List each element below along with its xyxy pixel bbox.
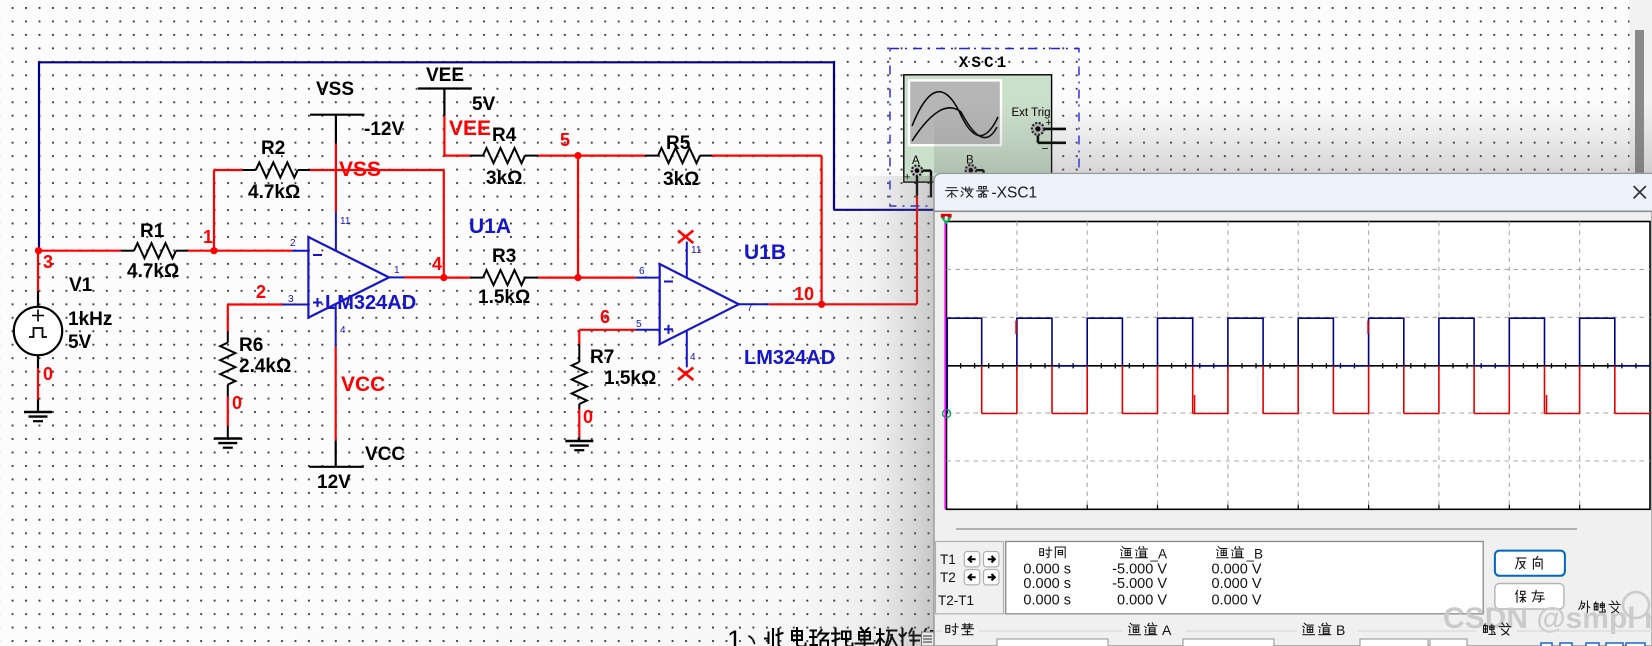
- left edge grip: [922, 632, 935, 646]
- svg-text:3kΩ: 3kΩ: [663, 169, 699, 190]
- svg-text:12V: 12V: [317, 472, 351, 493]
- wire R1 to node1/pin2: [188, 250, 292, 252]
- node 10: [794, 284, 825, 308]
- button reverse (fanxiang): [1495, 551, 1565, 576]
- svg-text:0.000 s: 0.000 s: [1023, 576, 1071, 592]
- svg-text:5: 5: [636, 319, 642, 330]
- svg-text:1: 1: [203, 227, 213, 247]
- wire node5 to R5: [578, 155, 645, 157]
- svg-text:6: 6: [639, 266, 645, 277]
- bottom text 1.此电路把单极性信: [727, 625, 942, 646]
- no-connect X pin4 U1B: [678, 368, 693, 381]
- svg-text:LM324AD: LM324AD: [325, 292, 416, 314]
- label channel B group: [1303, 622, 1346, 638]
- svg-text:B: B: [1336, 622, 1345, 638]
- svg-text:-5.000 V: -5.000 V: [1112, 576, 1167, 592]
- power rail VSS -12V: [310, 115, 364, 212]
- svg-text:1: 1: [727, 625, 742, 646]
- svg-text:U1A: U1A: [469, 215, 511, 238]
- cursor readout T-box: [936, 542, 1004, 614]
- red overshoot spikes: [1016, 321, 1368, 335]
- svg-text:0: 0: [43, 364, 53, 384]
- wire node6 to pin5: [579, 330, 635, 344]
- label ext trigger (waichufa): [1579, 601, 1620, 613]
- svg-text:U1B: U1B: [744, 241, 786, 264]
- resistor R2 4.7k: [243, 162, 310, 177]
- channel start transients at left edge: [946, 318, 948, 413]
- U1A pin numbers: [288, 216, 400, 336]
- label channel A group: [1129, 622, 1172, 638]
- svg-text:5: 5: [560, 130, 570, 150]
- label timebase (shiji): [946, 624, 974, 635]
- power rail VCC 12V: [309, 347, 364, 467]
- channel A red waveform: [982, 366, 1650, 414]
- window title bar: [935, 174, 1652, 211]
- wire node3 to R1: [39, 250, 122, 252]
- svg-text:XSC1: XSC1: [959, 54, 1009, 72]
- resistor R3 1.5k: [470, 270, 538, 285]
- svg-text:0: 0: [232, 393, 242, 413]
- svg-text:6: 6: [600, 307, 610, 327]
- wire net3 blue from source to scope channel B: [39, 61, 935, 250]
- resistor R1 4.7k: [121, 243, 188, 258]
- cursor arrow buttons: [964, 552, 999, 585]
- svg-text:VSS: VSS: [339, 158, 381, 181]
- svg-text:1.5kΩ: 1.5kΩ: [604, 368, 656, 389]
- separator under graph: [956, 528, 1577, 530]
- oscilloscope XSC1 body: [904, 75, 1052, 182]
- svg-text:_A: _A: [1150, 547, 1168, 562]
- svg-text:CSDN @smpl: CSDN @smpl: [1443, 602, 1636, 635]
- svg-text:11: 11: [691, 245, 702, 256]
- svg-text:4: 4: [690, 352, 696, 363]
- ground under R6: [214, 439, 242, 448]
- svg-text:VSS: VSS: [316, 79, 354, 100]
- svg-text:-XSC1: -XSC1: [992, 185, 1038, 202]
- button save (baocun): [1495, 584, 1564, 610]
- svg-text:V1: V1: [69, 275, 93, 296]
- svg-text:5V: 5V: [68, 332, 92, 353]
- svg-text:11: 11: [340, 216, 351, 227]
- wire R2 to node4 riser: [310, 170, 444, 278]
- node 2 wire R6 to pin3: [228, 305, 282, 332]
- scope time axis: [947, 362, 1651, 510]
- svg-text:0.000 V: 0.000 V: [1212, 576, 1262, 592]
- svg-text:0.000 s: 0.000 s: [1023, 593, 1071, 609]
- svg-text:1kHz: 1kHz: [68, 309, 112, 330]
- watermark CSDN: [1443, 592, 1652, 635]
- node5 riser junction: [574, 156, 581, 282]
- svg-text:7: 7: [747, 303, 753, 314]
- scope gridlines: [947, 222, 1651, 510]
- svg-text:R5: R5: [666, 133, 691, 154]
- readout table: [1006, 542, 1483, 614]
- op-amp U1A LM324AD: [282, 212, 404, 347]
- terminal B: [966, 155, 984, 176]
- svg-text:VCC: VCC: [365, 444, 405, 465]
- U1B pin numbers: [636, 245, 753, 363]
- table value rows: [1023, 562, 1261, 609]
- wire U1A output to node4: [404, 276, 444, 278]
- resistor R5 3k: [645, 148, 712, 163]
- resistor R4 3k: [470, 148, 538, 163]
- svg-text:R3: R3: [492, 246, 516, 267]
- svg-text:VEE: VEE: [426, 65, 464, 86]
- svg-text:0.000 V: 0.000 V: [1117, 593, 1167, 609]
- svg-text:4.7kΩ: 4.7kΩ: [127, 261, 179, 282]
- wire R5 to node10 riser: [712, 156, 822, 305]
- ground under R7: [565, 441, 593, 450]
- channel B blue waveform: [947, 318, 1651, 366]
- svg-text:VEE: VEE: [449, 117, 491, 140]
- svg-text:_B: _B: [1246, 547, 1264, 562]
- wire node4 to R3: [444, 277, 470, 279]
- svg-text:T1: T1: [940, 552, 956, 567]
- table headers: [1040, 546, 1263, 561]
- svg-text:1.5kΩ: 1.5kΩ: [478, 287, 530, 308]
- wire R4 to node5: [538, 155, 578, 157]
- channel B reference marker: [943, 410, 951, 418]
- svg-text:4: 4: [432, 254, 442, 274]
- svg-text:VCC: VCC: [341, 373, 385, 396]
- svg-text:5V: 5V: [472, 94, 496, 115]
- T labels: [938, 552, 974, 608]
- ground under V1: [24, 412, 52, 421]
- node 3: [35, 247, 53, 272]
- svg-text:-12V: -12V: [364, 119, 404, 140]
- power rail VEE 5V: [418, 89, 472, 156]
- svg-text:3kΩ: 3kΩ: [486, 168, 522, 189]
- voltage source V1 square wave 1kHz 5V: [14, 251, 62, 411]
- groupbox lines: [936, 630, 1652, 632]
- scope graph area: [947, 222, 1651, 510]
- oscilloscope instrument XSC1 selection box: [890, 49, 1079, 207]
- cursor T1 magenta: [944, 222, 946, 510]
- trigger edge buttons: [1541, 643, 1645, 646]
- svg-text:R4: R4: [492, 125, 517, 146]
- svg-text:A: A: [1162, 622, 1172, 638]
- svg-text:R2: R2: [261, 138, 285, 159]
- wire node1 riser to R2: [214, 170, 243, 251]
- label trigger (chufa): [1484, 623, 1511, 635]
- svg-text:T2-T1: T2-T1: [938, 593, 974, 608]
- wire U1B output to scope channel A: [769, 196, 917, 305]
- svg-text:rl: rl: [1644, 602, 1652, 635]
- wire VEE to R4: [444, 155, 470, 157]
- svg-text:0.000 V: 0.000 V: [1212, 593, 1262, 609]
- svg-text:2.4kΩ: 2.4kΩ: [239, 356, 291, 377]
- window title text: [946, 185, 1037, 202]
- svg-text:4: 4: [340, 325, 346, 336]
- svg-text:3: 3: [288, 294, 294, 305]
- window close button: [1634, 186, 1646, 198]
- schematic scrollbar: [1630, 0, 1652, 175]
- svg-text:2: 2: [256, 282, 266, 302]
- resistor R7 1.5k: [572, 344, 587, 440]
- terminal A: [904, 155, 931, 197]
- bottom input boxes: [997, 639, 1467, 646]
- no-connect X pin11 U1B: [678, 231, 693, 244]
- svg-text:4.7kΩ: 4.7kΩ: [248, 182, 300, 203]
- svg-text:R6: R6: [239, 335, 263, 356]
- resistor R6 2.4k: [220, 332, 235, 438]
- svg-text:R1: R1: [140, 221, 165, 242]
- svg-text:3: 3: [43, 252, 53, 272]
- scope window shadow: [792, 176, 934, 646]
- svg-text:0: 0: [583, 407, 593, 427]
- cursor flag: [941, 214, 952, 225]
- op-amp U1B LM324AD: [635, 242, 769, 368]
- node 5: [560, 130, 582, 159]
- svg-text:T2: T2: [940, 570, 956, 585]
- wire R3 to U1B pin6: [538, 277, 635, 279]
- node 1: [203, 227, 218, 254]
- svg-text:2: 2: [290, 238, 296, 249]
- node 4: [432, 254, 447, 281]
- svg-text:R7: R7: [590, 347, 614, 368]
- Ext Trig terminal: [1032, 117, 1066, 156]
- svg-text:1: 1: [394, 265, 400, 276]
- oscilloscope window frame: [934, 173, 1652, 646]
